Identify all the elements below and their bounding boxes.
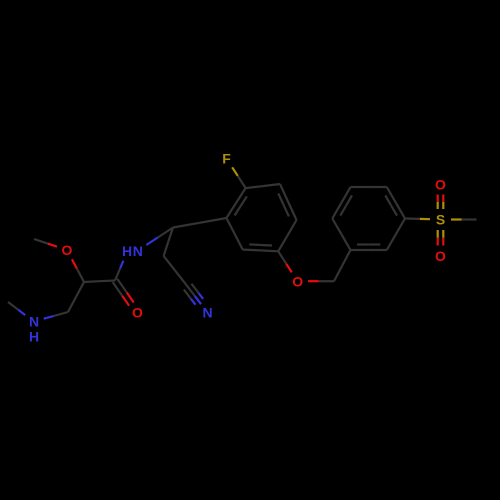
O-C central bond: [72, 259, 84, 282]
NH-CH bond: [146, 228, 173, 246]
S-CH3 bond: [451, 218, 477, 220]
ring2 side B3-B4: [332, 219, 350, 251]
svg-text:O: O: [132, 304, 143, 320]
svg-text:H: H: [122, 243, 132, 259]
ring2 side B6-B1: [385, 187, 405, 219]
ring1 side A1-A2: [246, 184, 280, 188]
CH2-CN bond: [164, 256, 186, 284]
ring1 side A4-A5: [243, 244, 279, 251]
C-F bond: [232, 167, 245, 188]
ring2 side B5-B6: [351, 186, 387, 188]
svg-text:S: S: [436, 212, 445, 228]
svg-text:N: N: [202, 305, 212, 321]
ring1 side A3-A4: [278, 220, 296, 251]
CH-ring1 bond: [173, 218, 226, 228]
ring2 side B1-B2: [387, 219, 405, 251]
svg-text:O: O: [62, 242, 73, 258]
ring1 side A5-A6: [226, 218, 242, 250]
CH2-ring2 bond: [334, 250, 351, 281]
ring1 side A6-A1: [226, 188, 247, 218]
ring2 side B2-B3: [351, 245, 387, 251]
svg-text:O: O: [292, 273, 303, 289]
NH-CH3 bond: [8, 302, 25, 315]
methoxy CH3-O bond: [34, 239, 57, 247]
svg-text:O: O: [435, 248, 446, 264]
svg-text:N: N: [29, 313, 39, 329]
svg-text:H: H: [29, 329, 39, 345]
O-CH2 benzyl bond: [308, 280, 334, 282]
svg-text:N: N: [133, 243, 143, 259]
C=O carbonyl double bond: [113, 279, 134, 306]
svg-text:F: F: [222, 151, 231, 167]
ring2-S bond: [405, 217, 430, 220]
ring1-O ether bond: [278, 251, 292, 272]
S=O bottom double bond: [438, 230, 444, 246]
S=O top double bond: [438, 195, 444, 210]
C#N nitrile triple bond: [184, 284, 203, 305]
C(=O)-NH amide bond: [115, 261, 123, 281]
ring1 side A2-A3: [278, 184, 296, 220]
C-C(=O) bond: [84, 281, 115, 283]
CH-CH2 bond: [164, 228, 173, 256]
ring2 side B4-B5: [332, 187, 352, 219]
CH2-NH bond: [44, 312, 68, 319]
svg-text:O: O: [435, 177, 446, 193]
C-CH2 bond: [68, 282, 84, 312]
